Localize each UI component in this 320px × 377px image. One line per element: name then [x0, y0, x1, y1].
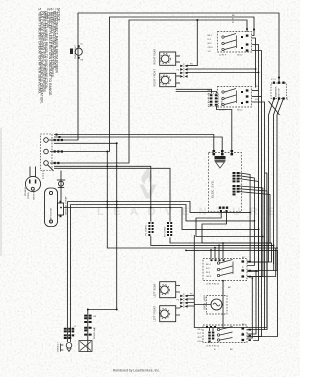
middle connector 1 — [148, 222, 153, 236]
wire sw1 to sw2 link — [252, 38, 256, 88]
infinite switch RF dashed box — [218, 87, 252, 108]
wire stack R drop — [87, 310, 89, 353]
wire elec bottom out 2 — [202, 212, 267, 330]
middle connector 2 — [167, 222, 172, 236]
svg-text:5. VERIFY PROPER OPERATION AFT: 5. VERIFY PROPER OPERATION AFTER SERVICI… — [38, 8, 42, 94]
wire grill feed 2 — [176, 92, 217, 94]
grill receptacle connector — [210, 94, 218, 106]
wire ground lead — [60, 171, 62, 204]
elec sys conn cluster 1 — [233, 172, 240, 182]
svg-text:LEFT FRONT: LEFT FRONT — [154, 305, 157, 321]
svg-text:L1 H1 P: L1 H1 P — [219, 55, 227, 57]
wire lamp left — [194, 304, 211, 306]
wire sw2 stub a — [252, 90, 259, 92]
wire L1 outer loop — [49, 13, 279, 140]
wire stack L drop 1 — [66, 202, 68, 343]
wire sw2 stub b — [252, 96, 262, 98]
wire conn2 drop — [170, 238, 272, 263]
svg-text:RIGHT FRONT: RIGHT FRONT — [154, 69, 157, 87]
svg-text:BK-1: BK-1 — [198, 329, 204, 331]
elec sys top pins — [213, 150, 234, 155]
svg-text:OVEN LIGHT: OVEN LIGHT — [75, 44, 77, 59]
svg-text:RIGHT REAR: RIGHT REAR — [154, 49, 157, 65]
svg-text:BK-1: BK-1 — [208, 90, 214, 92]
label sw RF col — [208, 90, 214, 108]
terminal block dashed box — [41, 134, 53, 171]
oven light DL on L1 — [75, 48, 82, 55]
hold warm dashed component — [271, 83, 287, 99]
elec sys control dashed box — [209, 153, 242, 212]
wire mid bundle 3 — [64, 208, 259, 272]
harness wire A — [54, 135, 214, 153]
infinite switch LR dashed box — [203, 259, 251, 281]
label wire tags top — [75, 15, 259, 335]
wire elec bottom out 1 — [196, 212, 263, 277]
terminal L1 — [44, 138, 49, 143]
svg-text:OR-4: OR-4 — [198, 341, 204, 343]
left rear burner box — [160, 282, 176, 298]
stack R door switch — [79, 341, 92, 352]
stack L lamp — [61, 343, 72, 352]
oven lamp bulb — [211, 299, 222, 310]
wire comp drop 1 — [247, 99, 274, 263]
wire L2 loop — [50, 17, 254, 152]
terminal L2 — [44, 161, 49, 166]
wire circle3 diagonal — [48, 165, 54, 171]
wire grill to elec — [217, 106, 232, 153]
bottom middle connector — [208, 332, 214, 343]
wire conn feed B — [54, 168, 170, 221]
fuse element box — [58, 203, 64, 215]
stack R connector rows — [84, 315, 91, 336]
harness wire C long drop — [54, 143, 117, 309]
wire conn feed A — [54, 166, 151, 221]
left edge scan smudge — [0, 128, 2, 256]
svg-text:P1 CONN: P1 CONN — [146, 225, 148, 236]
harness mark row a — [56, 134, 58, 136]
svg-text:ELEC. SYS.: ELEC. SYS. — [211, 180, 215, 198]
wire L3 loop — [50, 20, 247, 163]
plug prong 2 — [35, 180, 37, 184]
svg-text:L1 H1 P: L1 H1 P — [219, 110, 227, 112]
wire burner stub 1 — [176, 55, 180, 57]
svg-text:WARMER: WARMER — [275, 86, 278, 97]
wire burner pins right 3 — [188, 72, 259, 74]
watermark flame logo — [140, 167, 157, 199]
wire burner stub 3 — [176, 75, 180, 77]
svg-text:LEFT REAR: LEFT REAR — [154, 283, 157, 297]
elec sys conn cluster 2 — [233, 185, 240, 195]
wire lamp inner drop — [222, 281, 224, 328]
label sw RR col — [208, 35, 214, 53]
wire neutral drop — [107, 152, 275, 277]
right rear burner box — [159, 52, 184, 322]
svg-text:TERM BLOCK: TERM BLOCK — [51, 207, 53, 223]
wire lamp right — [222, 304, 223, 306]
right front burner box — [160, 73, 176, 86]
power cord plug — [25, 176, 40, 191]
wire burner pins right 1 — [188, 65, 198, 67]
left front burner box — [160, 306, 176, 322]
terminal connector marks — [54, 45, 80, 164]
wire mid bundle 2 — [71, 205, 255, 266]
wire comp drop 3 — [247, 99, 283, 271]
plug ground pin — [31, 187, 34, 190]
grill connector outline — [209, 93, 219, 106]
wire right bus 1 — [252, 45, 259, 341]
pill screw bottom — [49, 220, 52, 223]
svg-text:W: W — [94, 328, 96, 330]
light pins — [78, 45, 80, 59]
right front burner element — [161, 76, 169, 84]
plug dashed link — [42, 171, 44, 180]
svg-text:BU: BU — [255, 86, 258, 88]
svg-text:P2 CONN: P2 CONN — [165, 226, 167, 237]
harness wire B — [54, 137, 222, 153]
wire inter-switch 2 — [247, 271, 256, 334]
plug prong 1 — [29, 180, 31, 184]
wire conn1 drop — [151, 236, 274, 271]
right rear burner element — [161, 55, 169, 63]
notice text block (rotated notes) — [38, 8, 61, 104]
top pin cluster dashed spine — [183, 64, 185, 79]
fuse pin bottom — [60, 215, 62, 217]
top burner pin cluster — [180, 65, 187, 78]
wire right bus 3 — [252, 102, 265, 330]
oven lamp dashed box — [207, 296, 228, 315]
elec sys fan wires — [240, 173, 270, 243]
svg-text:POWER: POWER — [25, 187, 27, 196]
svg-text:L1 H1 P H2 L2: L1 H1 P H2 L2 — [206, 346, 220, 348]
elec sys bottom pins — [219, 207, 228, 213]
wire comp cross — [269, 101, 280, 115]
svg-text:CORD: CORD — [28, 192, 30, 199]
junction block pill — [45, 188, 58, 227]
wire mid bundle 1 — [67, 202, 250, 262]
stack L connector row 2 — [64, 334, 74, 339]
infinite switch LF dashed box — [203, 325, 251, 343]
svg-text:OR-4: OR-4 — [208, 47, 214, 49]
chassis ground plate 2 — [58, 187, 64, 189]
svg-text:OVEN LAMP: OVEN LAMP — [204, 295, 207, 310]
wire grill feed 1 — [176, 89, 212, 93]
wire lower burner pins right — [188, 296, 195, 307]
wire drop to burner pins — [196, 20, 198, 66]
label sw LF col — [198, 329, 204, 343]
elec sys transformer — [215, 156, 226, 159]
bottom pin cluster dashed spine — [183, 294, 185, 309]
svg-text:GROUND STRAP: GROUND STRAP — [65, 196, 68, 215]
big box outline — [194, 173, 267, 328]
wire sw1b top pins feeds — [211, 243, 223, 259]
wire bottom conn feeds — [210, 328, 214, 332]
svg-text:H2 L2: H2 L2 — [237, 55, 243, 57]
label sw LR col — [206, 264, 212, 278]
wire burner pins right 2 — [188, 68, 256, 70]
wire burner stub 4 — [176, 82, 180, 84]
svg-text:GROUND: GROUND — [34, 189, 36, 200]
chassis ground circle — [59, 181, 64, 186]
svg-text:H2 L2: H2 L2 — [237, 110, 243, 112]
svg-text:BK-1: BK-1 — [208, 35, 214, 37]
svg-text:SWITCH: SWITCH — [279, 87, 281, 97]
wire lower burner stubs — [176, 286, 180, 316]
svg-text:Rendered by LeadVenture, Inc.: Rendered by LeadVenture, Inc. — [113, 369, 160, 373]
wire right bus 2 — [252, 51, 262, 337]
svg-text:OR-4: OR-4 — [206, 276, 212, 278]
svg-text:GRILL: GRILL — [222, 98, 224, 106]
wire inter-switch 1 — [247, 278, 252, 338]
wire cascade extra — [186, 250, 278, 336]
left rear burner element — [161, 286, 169, 294]
terminal N — [44, 149, 49, 154]
svg-text:W: W — [232, 22, 234, 24]
wire burner stub 2 — [176, 61, 180, 63]
wire plug leads — [30, 167, 36, 177]
hold warm pins — [273, 82, 285, 100]
svg-text:BK-1: BK-1 — [206, 264, 212, 266]
light side label blob — [70, 49, 73, 55]
svg-text:OVEN LT: OVEN LT — [58, 342, 60, 352]
pill screw top — [49, 191, 52, 194]
bottom burner pin cluster — [180, 295, 187, 308]
oven lamp filament — [213, 303, 220, 306]
stack L connector row 1 — [64, 328, 74, 333]
harness mark row b — [59, 136, 61, 138]
fuse pin top — [60, 201, 62, 203]
infinite switch RR dashed box — [218, 32, 252, 53]
elec sys triangle — [216, 162, 225, 168]
left front burner element — [161, 310, 169, 318]
svg-text:OR-4: OR-4 — [208, 102, 214, 104]
svg-text:L1 H1 P H2 L2: L1 H1 P H2 L2 — [206, 284, 220, 286]
chassis ground plate 1 — [57, 179, 65, 181]
wire comp drop 2 — [274, 99, 280, 265]
wire stack L drop 2 — [70, 205, 72, 343]
